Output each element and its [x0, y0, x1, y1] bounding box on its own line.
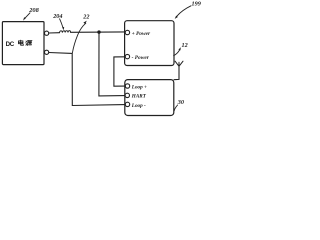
Loop+ terminal [125, 84, 129, 88]
DC power supply box 208 [2, 22, 44, 65]
leader arrow for 204 [60, 19, 63, 28]
leader arrow for 208 [25, 13, 30, 19]
svg-text:12: 12 [182, 42, 188, 49]
leader arrow for 199 [177, 6, 191, 17]
HART terminal [125, 93, 129, 97]
svg-text:Loop -: Loop - [131, 103, 146, 109]
svg-text:- Power: - Power [132, 55, 150, 61]
+Power terminal [125, 30, 129, 34]
+Power text [132, 31, 151, 37]
DC- wire to Loop- [49, 53, 125, 106]
svg-text:22: 22 [82, 13, 89, 20]
svg-text:DC: DC [6, 41, 15, 48]
junction dot [97, 30, 100, 33]
-Power terminal [125, 54, 129, 58]
HART text [131, 94, 147, 100]
DC power supply label text [6, 41, 15, 48]
DC + terminal [45, 31, 49, 35]
DC - terminal [45, 50, 49, 54]
wireless adapter box (lower right) [125, 80, 174, 116]
svg-text:199: 199 [192, 1, 201, 8]
Loop+ text [131, 84, 147, 90]
Loop- terminal [125, 102, 129, 106]
glyph 源 [26, 41, 32, 46]
svg-text:Loop +: Loop + [131, 84, 147, 90]
svg-text:HART: HART [131, 94, 147, 100]
field device box (upper right) [125, 21, 174, 66]
label 12 [182, 42, 188, 49]
Loop- text [131, 103, 146, 109]
leader arrow for 22 [72, 23, 85, 53]
glyph 电 [19, 40, 24, 45]
svg-text:+ Power: + Power [132, 31, 151, 37]
svg-text:204: 204 [52, 13, 62, 20]
label 30 [177, 99, 184, 106]
antenna stem wire [174, 66, 179, 79]
antenna [175, 61, 183, 66]
label 204 [52, 13, 62, 20]
label 22 [82, 13, 89, 20]
-Power wire to Loop+ [114, 57, 125, 86]
label 208 [28, 7, 39, 14]
leader arrow for 30 [174, 105, 177, 111]
wire resistor to +Power [71, 31, 126, 33]
label 199 [192, 1, 201, 8]
wire DC+ to resistor [49, 32, 60, 34]
leader arrow for 12 [174, 50, 180, 56]
HART wire from junction [99, 32, 125, 96]
-Power text [132, 55, 150, 61]
resistor 204 [60, 31, 71, 33]
